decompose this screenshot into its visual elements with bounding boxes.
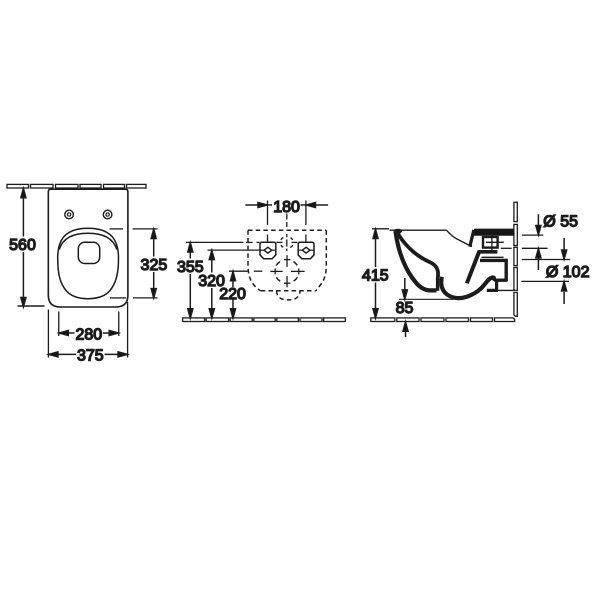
bowl trap arc — [441, 277, 494, 298]
dimension 560 — [18, 188, 45, 307]
supply circle centerlines — [286, 214, 288, 251]
side profile top rim line — [390, 229, 447, 231]
svg-text:Ø 55: Ø 55 — [543, 213, 578, 230]
flush diagonal — [467, 251, 480, 283]
svg-text:560: 560 — [9, 237, 36, 254]
front outer curve — [396, 232, 437, 291]
dimension diameter 55 — [522, 214, 548, 270]
dimension 85 — [404, 278, 406, 299]
svg-text:280: 280 — [75, 326, 102, 343]
flush pipe cross — [486, 241, 504, 243]
mounting hole right — [298, 242, 314, 258]
rim nose blob — [394, 229, 402, 234]
dimension 180 — [245, 201, 328, 243]
floor hatch rear view — [183, 318, 346, 322]
outlet bottom horizontal — [496, 279, 507, 282]
dimension diameter 102 — [521, 238, 570, 304]
mounting hole left — [260, 242, 276, 258]
svg-text:85: 85 — [396, 300, 414, 317]
wall hatch top view — [7, 184, 146, 188]
svg-text:180: 180 — [273, 199, 300, 216]
rear outline dashed — [248, 229, 326, 231]
seat outer rim — [58, 228, 119, 299]
outlet right vertical — [505, 259, 508, 281]
outlet circle dashed — [276, 262, 297, 282]
supply circle dashed — [281, 238, 293, 248]
outlet step — [487, 279, 498, 291]
mounting hole right diamond — [302, 247, 310, 253]
base thin line — [497, 289, 514, 291]
bowl bottom reference line — [399, 298, 453, 300]
dimension 320 — [208, 250, 261, 318]
bolt hole left — [65, 210, 74, 219]
dimension 415 — [372, 229, 389, 318]
dimension 280 — [59, 312, 119, 337]
wall hatch side view — [514, 202, 517, 316]
foot step vertical — [436, 277, 439, 291]
seat inner rim arc — [59, 233, 117, 249]
svg-text:325: 325 — [141, 257, 168, 274]
wall inner line stub — [501, 247, 512, 249]
cistern bar — [471, 229, 514, 236]
pipe lower edge — [478, 250, 497, 254]
flush pipe square — [483, 237, 498, 248]
dimension 325 — [110, 229, 158, 298]
dimension 375 — [48, 302, 127, 358]
inner bowl opening — [78, 242, 99, 263]
svg-text:415: 415 — [362, 268, 389, 285]
dimension 220 — [229, 271, 248, 318]
side profile back slope line — [447, 230, 473, 246]
dimension 355 — [186, 242, 298, 318]
hinge diagonal — [470, 230, 474, 247]
bolt hole right — [103, 210, 112, 219]
outlet circle centerlines — [270, 255, 304, 287]
mounting hole left diamond — [264, 247, 272, 253]
svg-text:220: 220 — [219, 286, 246, 303]
outlet top thick — [480, 259, 507, 262]
outlet thin line — [482, 256, 504, 258]
outlet bulge dashed — [277, 291, 301, 300]
toilet body outline top view — [48, 189, 128, 307]
svg-text:Ø 102: Ø 102 — [546, 264, 590, 281]
floor hatch side view — [371, 318, 515, 322]
rim inner curve — [397, 231, 439, 277]
svg-text:375: 375 — [77, 347, 104, 364]
